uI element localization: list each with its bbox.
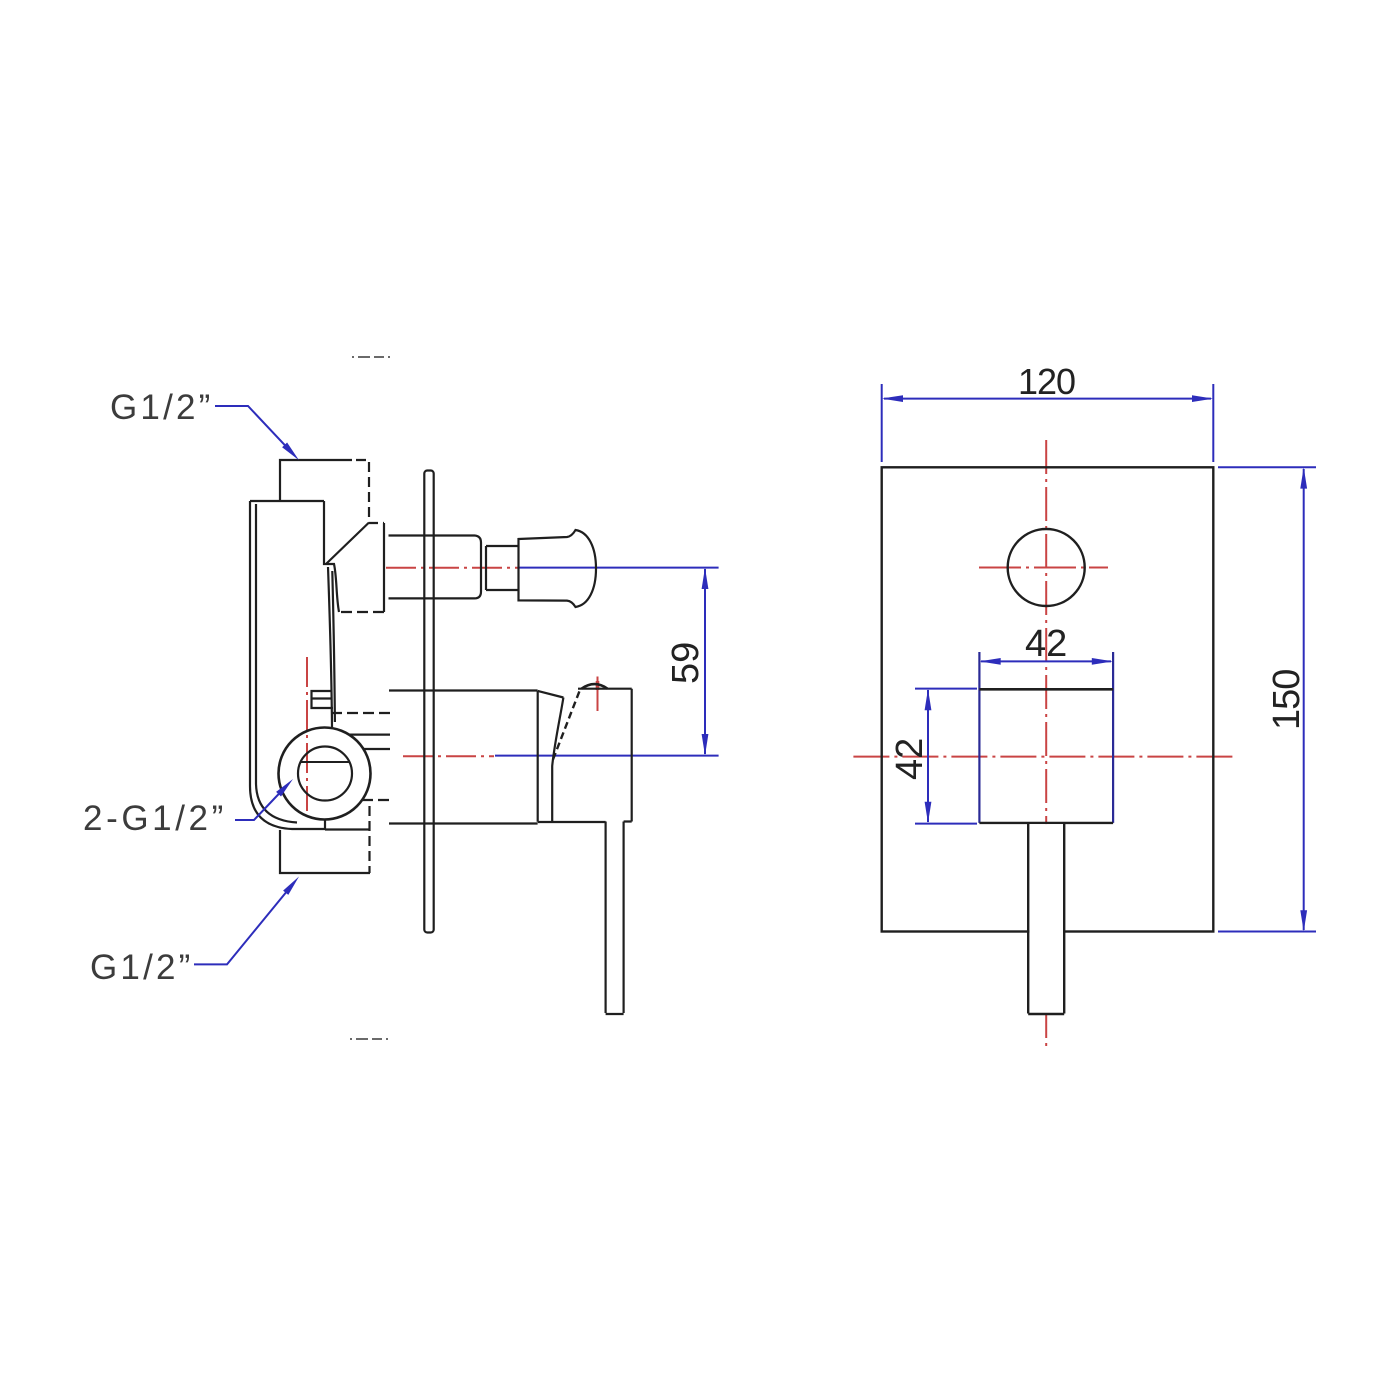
bottom break mark	[350, 1038, 391, 1040]
top inlet fitting G1/2	[280, 460, 352, 500]
diverter knob circle front	[1008, 529, 1085, 606]
red port vertical centerline	[307, 568, 598, 811]
bottom fitting top edge right part	[325, 828, 370, 830]
diverter knob	[519, 530, 597, 607]
lower cartridge dashed hidden line 4	[362, 799, 390, 801]
handle collar top edge	[538, 691, 564, 698]
leader G1/2 top: arrow	[282, 443, 299, 461]
chamfer trapezoid dashed top	[369, 522, 384, 524]
lower cartridge bottom line	[389, 822, 538, 824]
120 dimension line	[884, 398, 1211, 400]
chamfer trapezoid diagonal	[327, 523, 370, 564]
leader G1/2 bottom: arrow	[283, 877, 299, 895]
bottom outlet fitting G1/2	[280, 830, 362, 873]
59 dimension line	[704, 569, 706, 754]
top 42 arrows	[979, 658, 1000, 665]
leader 2-G1/2: arrow	[276, 779, 293, 797]
stem end inner edge	[485, 546, 487, 590]
handle stem front edges	[1028, 823, 1064, 1014]
blue 59-dim extension line lower	[495, 755, 719, 757]
top 42 extension/sides navy	[979, 652, 1113, 823]
handle stem front white fill	[1029, 824, 1063, 1013]
120 dim extension lines	[882, 384, 1316, 932]
59 dim arrow up	[702, 568, 709, 589]
top 42 dimension line	[981, 660, 1111, 662]
svg-text:150: 150	[1266, 670, 1308, 730]
svg-text:G1/2”: G1/2”	[110, 388, 214, 427]
blue 59-dim extension line upper	[495, 568, 719, 756]
150 dimension line	[1303, 469, 1305, 930]
valve body top edge	[250, 500, 324, 502]
lower cartridge dashed hidden line 1	[331, 712, 390, 714]
handle cap top edge	[578, 688, 632, 690]
red lower axis centerline	[403, 755, 494, 757]
top break mark	[352, 356, 391, 358]
svg-text:G1/2”: G1/2”	[90, 948, 194, 987]
59 dim arrow down	[702, 734, 709, 756]
red square horizontal centerline	[853, 756, 1236, 758]
handle base square top edge	[979, 688, 1113, 691]
leader 2-G1/2: line	[235, 788, 284, 820]
stem neck top/bottom	[486, 546, 519, 590]
120 arrows	[882, 395, 903, 402]
valve body right edge with notch	[324, 501, 339, 612]
lever diagonal dashed	[553, 689, 581, 760]
red upper axis centerline	[386, 567, 519, 569]
150 arrows	[1300, 467, 1307, 488]
outlet circle chord	[301, 761, 350, 763]
red handle pivot mini centerline	[597, 677, 599, 712]
chamfer trapezoid dashed bottom	[339, 604, 384, 612]
body right wall double line	[328, 567, 332, 727]
svg-text:59: 59	[665, 642, 707, 684]
lower cartridge top line	[389, 689, 538, 691]
wall plate side view	[424, 471, 433, 933]
leader G1/2 top: line	[215, 406, 291, 452]
red main vertical centerline	[853, 440, 1236, 1047]
outlet circle bottom stub	[324, 820, 326, 831]
handle collar right edge	[552, 698, 563, 822]
left 42 dimension line	[927, 690, 929, 822]
handle base square bottom edge	[979, 822, 1113, 824]
handle lever stem	[606, 822, 624, 1015]
red circle horizontal centerline	[979, 567, 1108, 569]
leader G1/2 bottom: line	[194, 887, 291, 965]
chamfer trapezoid right edge	[383, 523, 385, 604]
outlet port circle outer	[279, 728, 371, 820]
lower cartridge line 2	[349, 733, 390, 735]
upper stem cylinder	[389, 536, 482, 599]
left 42 extension lines	[915, 689, 977, 824]
outlet port circle inner	[298, 747, 352, 801]
svg-text:42: 42	[1025, 623, 1067, 665]
valve body outer left edge and rounded bottom	[250, 501, 325, 829]
lever pivot bump	[582, 684, 608, 689]
handle collar left edge	[537, 691, 539, 822]
handle cap bottom edges	[538, 820, 632, 823]
left 42 arrows	[925, 689, 932, 710]
svg-text:120: 120	[1018, 361, 1075, 402]
svg-text:42: 42	[889, 738, 931, 780]
wall plate front rectangle	[882, 467, 1214, 931]
svg-text:2-G1/2”: 2-G1/2”	[83, 799, 227, 838]
boss stub above outlet circle	[312, 691, 334, 708]
valve body inner wall line	[256, 504, 297, 823]
lower cartridge line 3	[364, 748, 390, 750]
handle cap right edge	[631, 689, 633, 822]
150 dim extension lines	[1218, 467, 1316, 931]
